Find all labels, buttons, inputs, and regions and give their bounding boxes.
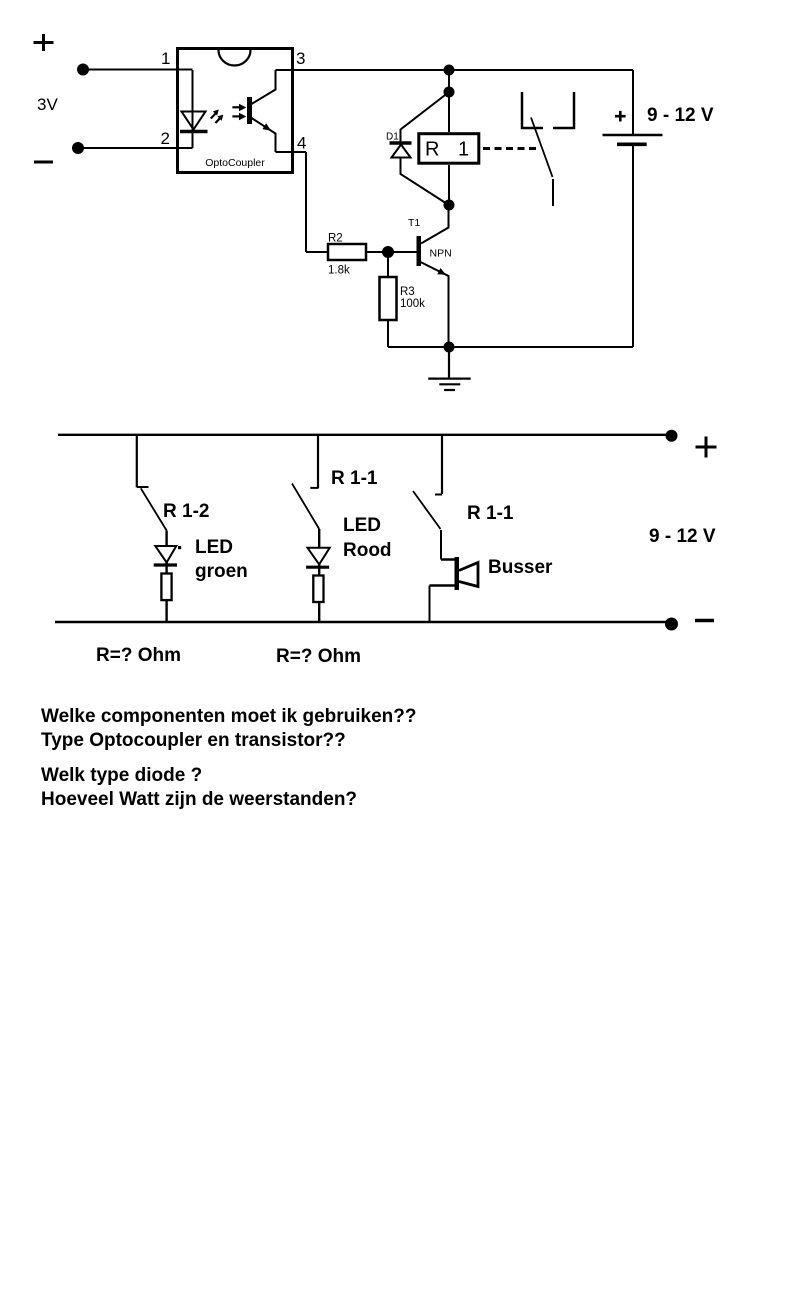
svg-text:R 1-2: R 1-2 xyxy=(163,501,209,522)
svg-text:groen: groen xyxy=(195,561,248,582)
svg-text:9 - 12 V: 9 - 12 V xyxy=(647,105,714,126)
svg-text:Type Optocoupler en transistor: Type Optocoupler en transistor?? xyxy=(41,730,346,751)
svg-text:R2: R2 xyxy=(328,233,343,245)
svg-text:Rood: Rood xyxy=(343,540,392,561)
svg-text:R: R xyxy=(425,138,439,160)
svg-text:3: 3 xyxy=(296,49,305,68)
svg-text:9 - 12 V: 9 - 12 V xyxy=(649,526,716,547)
svg-text:LED: LED xyxy=(343,515,381,536)
svg-text:1: 1 xyxy=(161,49,170,68)
svg-text:R3: R3 xyxy=(400,286,415,298)
svg-text:3V: 3V xyxy=(37,95,58,114)
svg-text:R=? Ohm: R=? Ohm xyxy=(96,645,181,666)
svg-text:T1: T1 xyxy=(408,217,420,229)
svg-text:NPN: NPN xyxy=(430,247,452,259)
svg-text:2: 2 xyxy=(161,129,170,148)
svg-text:LED: LED xyxy=(195,537,233,558)
svg-text:1.8k: 1.8k xyxy=(328,265,350,277)
svg-text:Welke componenten moet ik gebr: Welke componenten moet ik gebruiken?? xyxy=(41,706,417,727)
svg-text:Welk type diode ?: Welk type diode ? xyxy=(41,765,202,786)
svg-text:Hoeveel Watt zijn de weerstand: Hoeveel Watt zijn de weerstanden? xyxy=(41,789,357,810)
svg-text:OptoCoupler: OptoCoupler xyxy=(205,157,265,169)
svg-text:100k: 100k xyxy=(400,298,425,310)
svg-text:R=? Ohm: R=? Ohm xyxy=(276,646,361,667)
svg-text:R 1-1: R 1-1 xyxy=(331,468,378,489)
svg-text:4: 4 xyxy=(297,134,306,153)
svg-text:R 1-1: R 1-1 xyxy=(467,503,514,524)
svg-text:D1: D1 xyxy=(386,132,399,143)
svg-text:1: 1 xyxy=(458,138,469,160)
svg-text:Busser: Busser xyxy=(488,557,553,578)
